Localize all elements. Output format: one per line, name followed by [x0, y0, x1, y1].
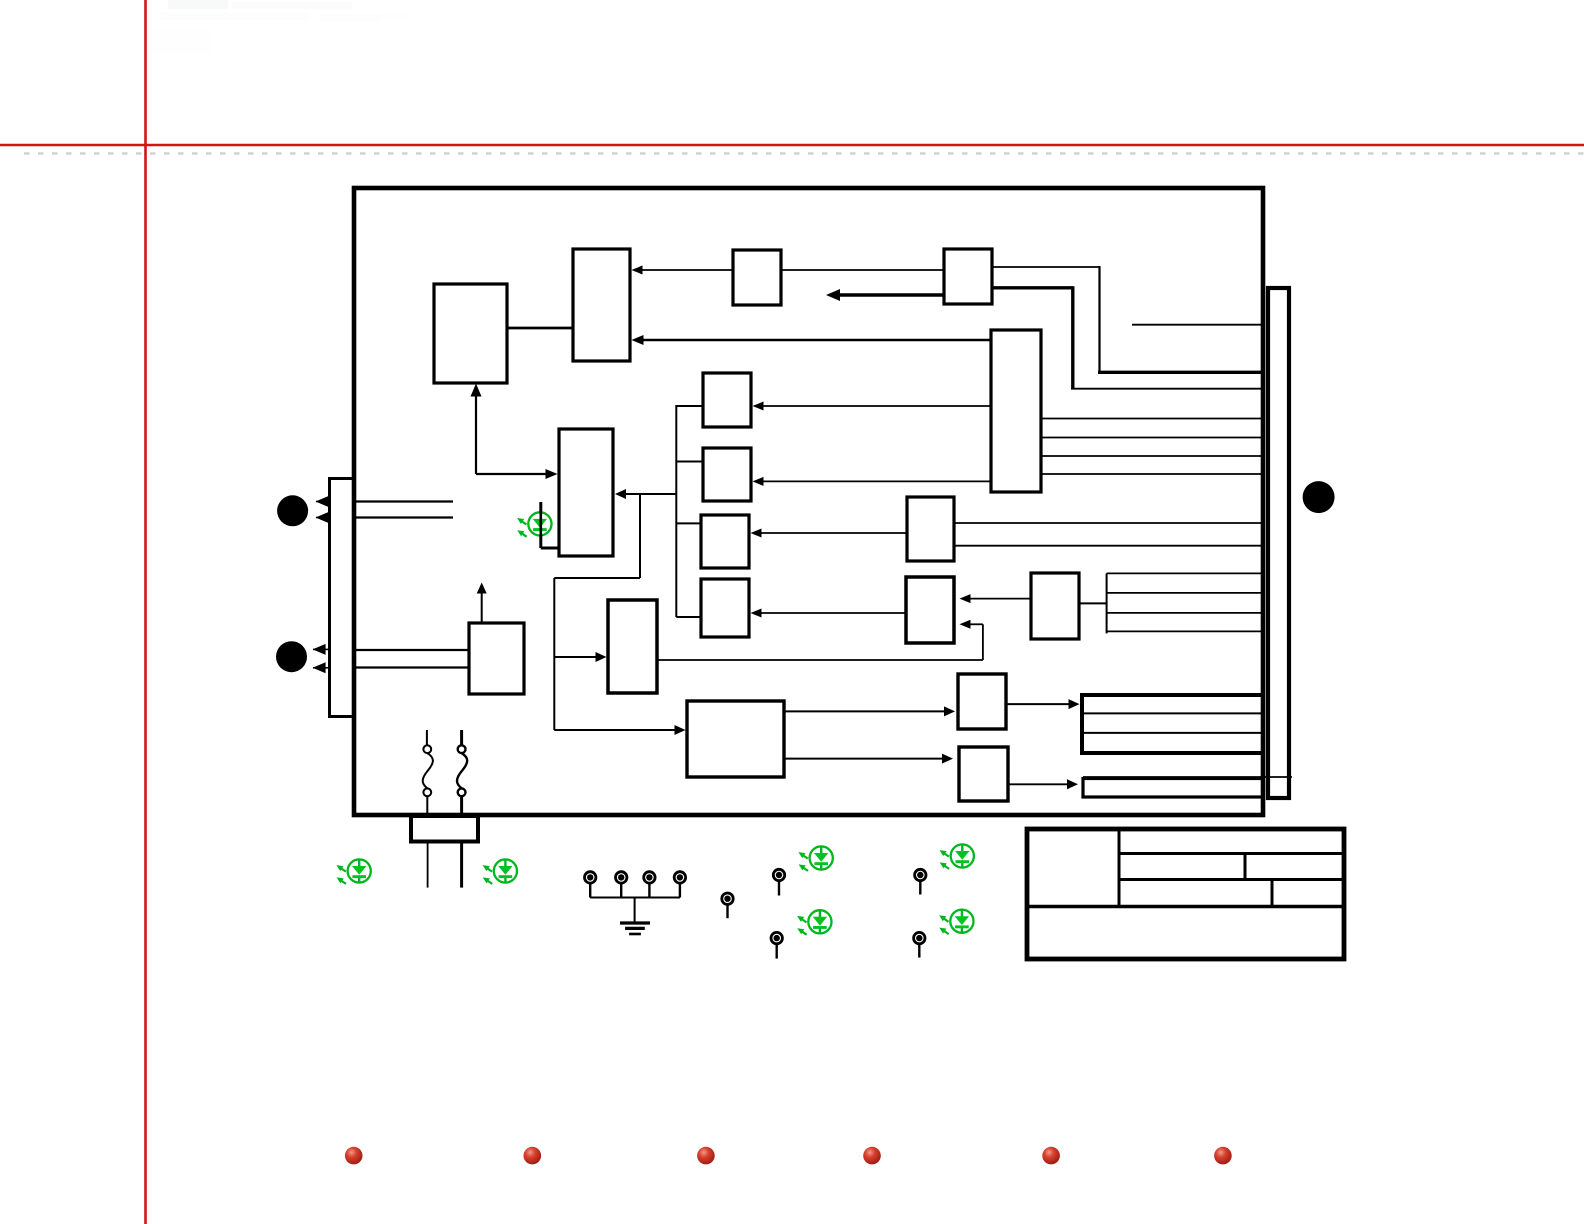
stub wire right top — [1132, 324, 1264, 326]
switch SW1 — [423, 730, 433, 814]
faint dashed ruler row — [24, 152, 1584, 155]
LED DS4 — [797, 910, 831, 935]
ground symbol — [620, 923, 650, 934]
wire F to S3 arrow — [751, 529, 908, 538]
wire P13 to P14 arrow — [784, 706, 955, 716]
connector arrows upper — [316, 496, 330, 523]
wire to P13 arrow — [554, 725, 685, 735]
wire P13 to P15 arrow — [784, 754, 953, 764]
test point TP4 — [674, 872, 685, 898]
LED DS2 — [483, 859, 517, 884]
block B2 — [559, 429, 613, 556]
block F — [907, 497, 954, 561]
wire U5 to B arrow — [632, 335, 992, 345]
red mounting dot 6 — [1214, 1147, 1232, 1165]
block L1 register — [1082, 695, 1263, 753]
right bus bar connector — [1268, 288, 1289, 798]
LED DS7 with lead into B2 — [517, 502, 559, 548]
test point TP1 — [585, 872, 596, 898]
wires F to bar — [954, 523, 1265, 546]
power lead thin — [427, 842, 429, 888]
faint scan artifact top-left — [152, 0, 410, 54]
block C3 — [733, 250, 781, 305]
block S3 — [701, 515, 749, 568]
block P14 — [958, 674, 1006, 729]
test point TP6 — [773, 869, 784, 895]
ground rail — [590, 897, 680, 899]
block B — [573, 249, 630, 361]
LED DS3 — [798, 846, 832, 871]
switch SW2 — [457, 730, 467, 814]
wire U5 to S2 arrow — [753, 477, 992, 486]
connector stub wires upper pair — [356, 502, 453, 518]
banana jack black bottom — [276, 641, 307, 672]
left connector block — [330, 479, 355, 717]
wire up arrow from D12 — [477, 583, 487, 624]
power lead thick — [460, 842, 463, 888]
test point TP2 — [616, 872, 627, 898]
wire P14 to L1 arrow — [1006, 699, 1080, 709]
test point TP8 — [915, 869, 926, 894]
block S1 — [703, 373, 751, 427]
stack bus vertical with stubs — [676, 405, 703, 617]
test point TP7 — [771, 932, 782, 958]
block S2 — [703, 448, 751, 501]
wire E feedback to G arrow — [657, 620, 983, 660]
title block table — [1027, 829, 1344, 959]
red mounting dot 4 — [863, 1147, 881, 1165]
wire P15 to L2 arrow — [1008, 779, 1078, 789]
test point TP9 — [914, 932, 925, 957]
red mounting dot 2 — [524, 1147, 542, 1165]
red mounting dot 1 — [345, 1147, 363, 1165]
wire C4 right path upper — [992, 266, 1264, 372]
banana jack black right — [1303, 481, 1335, 513]
block D12 — [469, 623, 524, 694]
wire A1 to B — [507, 327, 573, 330]
block L2 register — [1083, 777, 1292, 797]
block S4 — [701, 579, 749, 637]
block H — [1031, 573, 1079, 639]
wire C4 to C3 — [781, 269, 944, 271]
block C4 — [944, 249, 992, 304]
wire branch arrow into E — [554, 652, 606, 662]
connector stub wires lower pair to D12 — [356, 650, 469, 668]
block E — [608, 600, 657, 693]
wire C3 to B arrow — [632, 266, 734, 275]
wire H to G arrow — [960, 594, 1032, 603]
block P15 — [959, 747, 1008, 801]
main enclosure box — [354, 188, 1263, 815]
block U5 tall — [991, 330, 1041, 492]
wire stack bus to B2 arrow — [615, 489, 676, 499]
wire arrow up into A1 and right into B2 — [471, 384, 558, 480]
wire U5 to S1 arrow — [753, 402, 992, 411]
LED DS6 — [939, 910, 973, 935]
test point TP3 — [644, 872, 655, 898]
test point TP5 — [722, 893, 733, 918]
H bus bracket to bar — [1079, 573, 1265, 633]
red border line vertical — [144, 0, 147, 1224]
power entry sub box — [411, 816, 478, 842]
connector arrows lower — [313, 644, 329, 673]
LED DS5 — [940, 844, 974, 869]
red border line horizontal — [0, 144, 1584, 147]
LED DS1 — [336, 859, 370, 884]
wire C4 right path lower thick — [992, 286, 1264, 389]
ground stem — [634, 898, 636, 922]
red mounting dot 5 — [1042, 1147, 1060, 1165]
wire G to S4 arrow — [751, 609, 907, 618]
block A1 — [434, 284, 507, 383]
thick arrow from C4 left — [826, 289, 944, 301]
red mounting dot 3 — [697, 1147, 715, 1165]
bus wires U5 to bar — [1041, 419, 1265, 475]
block P13 — [687, 701, 784, 777]
banana jack black top — [277, 495, 308, 526]
wire junction to lower path — [554, 494, 640, 730]
block G — [906, 577, 954, 643]
